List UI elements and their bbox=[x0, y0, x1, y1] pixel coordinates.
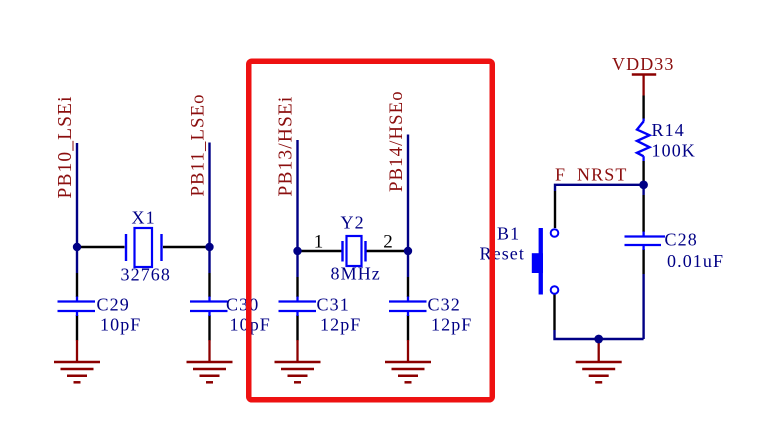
svg-text:Y2: Y2 bbox=[341, 213, 365, 233]
svg-text:PB11_LSEo: PB11_LSEo bbox=[188, 93, 209, 196]
svg-text:1: 1 bbox=[314, 231, 325, 252]
svg-text:PB10_LSEi: PB10_LSEi bbox=[55, 95, 76, 198]
svg-text:C30: C30 bbox=[226, 295, 259, 315]
svg-text:10pF: 10pF bbox=[100, 315, 141, 335]
svg-text:8MHz: 8MHz bbox=[331, 264, 381, 284]
svg-text:12pF: 12pF bbox=[320, 315, 361, 335]
svg-text:X1: X1 bbox=[132, 208, 156, 228]
svg-text:F: F bbox=[555, 165, 566, 185]
svg-text:2: 2 bbox=[383, 231, 394, 252]
svg-text:C28: C28 bbox=[665, 230, 698, 250]
svg-text:C31: C31 bbox=[317, 295, 350, 315]
svg-text:VDD33: VDD33 bbox=[612, 54, 675, 74]
svg-text:PB13/HSEi: PB13/HSEi bbox=[276, 96, 297, 197]
svg-text:0.01uF: 0.01uF bbox=[667, 251, 724, 271]
svg-text:C29: C29 bbox=[97, 295, 130, 315]
svg-text:Reset: Reset bbox=[480, 244, 526, 264]
svg-text:12pF: 12pF bbox=[431, 315, 472, 335]
svg-text:B1: B1 bbox=[497, 224, 520, 244]
svg-text:32768: 32768 bbox=[121, 265, 172, 285]
svg-text:NRST: NRST bbox=[577, 165, 627, 185]
svg-text:PB14/HSEo: PB14/HSEo bbox=[386, 90, 407, 192]
svg-text:R14: R14 bbox=[652, 120, 685, 140]
svg-text:C32: C32 bbox=[428, 295, 461, 315]
svg-text:100K: 100K bbox=[652, 141, 696, 161]
